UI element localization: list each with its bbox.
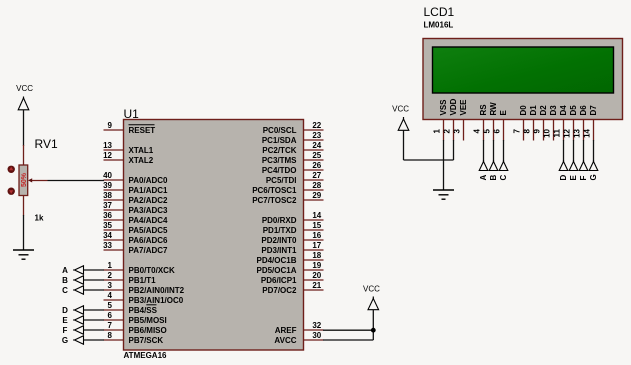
pin 29 (PC7/TOSC2) bbox=[252, 191, 323, 205]
wire terminal D to pin bbox=[84, 309, 105, 311]
pin 5 (PB4/SS) bbox=[104, 301, 158, 315]
ground (LCD) bbox=[433, 190, 454, 199]
svg-text:PA2/ADC2: PA2/ADC2 bbox=[129, 196, 169, 205]
power VCC (AREF) bbox=[363, 285, 380, 311]
wire RV1 to ground bbox=[23, 215, 25, 250]
svg-text:38: 38 bbox=[103, 191, 112, 200]
terminal F bbox=[63, 326, 84, 335]
svg-text:4: 4 bbox=[473, 128, 482, 133]
svg-text:8: 8 bbox=[523, 128, 532, 133]
svg-text:12: 12 bbox=[103, 151, 112, 160]
svg-text:12: 12 bbox=[563, 128, 572, 137]
svg-text:4: 4 bbox=[108, 291, 113, 300]
wire AVCC bbox=[323, 330, 373, 340]
svg-text:34: 34 bbox=[103, 231, 112, 240]
pin 33 (PA7/ADC7) bbox=[103, 241, 168, 255]
svg-text:VDD: VDD bbox=[449, 98, 458, 115]
terminal E (LCD) bbox=[569, 160, 578, 181]
wire VSS pin1 to ground bbox=[443, 140, 445, 190]
wire LCD pin to terminal D bbox=[563, 140, 565, 163]
svg-text:33: 33 bbox=[103, 241, 112, 250]
wire LCD pin to terminal A bbox=[483, 140, 485, 163]
svg-text:PA0/ADC0: PA0/ADC0 bbox=[129, 176, 169, 185]
wire terminal A to pin bbox=[84, 269, 105, 271]
svg-text:35: 35 bbox=[103, 221, 112, 230]
svg-text:30: 30 bbox=[312, 331, 321, 340]
svg-text:7: 7 bbox=[513, 128, 522, 133]
wire VCC to AREF bbox=[372, 310, 374, 331]
pin 1 (PB0/T0/XCK) bbox=[104, 261, 175, 275]
pin 12 (XTAL2) bbox=[103, 151, 154, 165]
terminal C (LCD) bbox=[499, 160, 508, 181]
svg-text:25: 25 bbox=[312, 151, 321, 160]
pin 8 (PB7/SCK) bbox=[104, 331, 164, 345]
svg-text:PD3/INT1: PD3/INT1 bbox=[261, 246, 297, 255]
svg-text:D0: D0 bbox=[519, 105, 528, 116]
pin 7 (PB6/MISO) bbox=[104, 321, 167, 335]
svg-text:14: 14 bbox=[312, 211, 321, 220]
svg-text:PC2/TCK: PC2/TCK bbox=[262, 146, 296, 155]
LCD pin 4 (RS) bbox=[473, 104, 488, 141]
svg-text:32: 32 bbox=[312, 321, 321, 330]
svg-text:3: 3 bbox=[108, 281, 113, 290]
pin 20 (PD6/ICP1) bbox=[261, 271, 324, 285]
svg-text:18: 18 bbox=[312, 251, 321, 260]
wire terminal F to pin bbox=[84, 329, 105, 331]
LCD pin 9 (D2) bbox=[533, 105, 548, 141]
LCD pin 1 (VSS) bbox=[433, 99, 448, 141]
svg-text:PD0/RXD: PD0/RXD bbox=[262, 216, 297, 225]
pin 39 (PA1/ADC1) bbox=[103, 181, 168, 195]
svg-text:PD1/TXD: PD1/TXD bbox=[263, 226, 297, 235]
LCD screen bbox=[433, 47, 614, 93]
svg-text:3: 3 bbox=[453, 128, 462, 133]
pin 17 (PD3/INT1) bbox=[261, 241, 323, 255]
svg-text:U1: U1 bbox=[124, 107, 140, 121]
svg-text:E: E bbox=[569, 175, 578, 181]
svg-text:39: 39 bbox=[103, 181, 112, 190]
svg-text:23: 23 bbox=[312, 131, 321, 140]
pin 32 (AREF) bbox=[275, 321, 324, 335]
svg-text:C: C bbox=[499, 175, 508, 181]
terminal D bbox=[62, 306, 83, 315]
svg-text:RW: RW bbox=[489, 102, 498, 116]
svg-text:D5: D5 bbox=[569, 105, 578, 116]
svg-text:XTAL1: XTAL1 bbox=[129, 146, 154, 155]
pin 4 (PB3/AIN1/OC0) bbox=[104, 291, 184, 305]
svg-text:29: 29 bbox=[312, 191, 321, 200]
svg-text:17: 17 bbox=[312, 241, 321, 250]
pin 37 (PA3/ADC3) bbox=[103, 201, 168, 215]
svg-text:G: G bbox=[589, 174, 598, 180]
terminal G bbox=[62, 336, 84, 345]
svg-text:10: 10 bbox=[543, 128, 552, 137]
terminal D (LCD) bbox=[559, 160, 568, 181]
svg-text:PB4/SS: PB4/SS bbox=[129, 306, 158, 315]
svg-text:RV1: RV1 bbox=[35, 137, 58, 151]
svg-text:PA5/ADC5: PA5/ADC5 bbox=[129, 226, 169, 235]
pin 9 (RESET) bbox=[104, 121, 156, 135]
svg-text:PA7/ADC7: PA7/ADC7 bbox=[129, 246, 169, 255]
svg-text:27: 27 bbox=[312, 171, 321, 180]
svg-text:20: 20 bbox=[312, 271, 321, 280]
LCD pin 5 (RW) bbox=[483, 102, 498, 141]
svg-text:PB3/AIN1/OC0: PB3/AIN1/OC0 bbox=[129, 296, 184, 305]
svg-text:PC3/TMS: PC3/TMS bbox=[262, 156, 297, 165]
svg-text:D4: D4 bbox=[559, 105, 568, 116]
terminal G (LCD) bbox=[589, 160, 598, 181]
LCD pin 10 (D3) bbox=[543, 105, 558, 141]
terminal B (LCD) bbox=[489, 160, 498, 181]
terminal A bbox=[62, 266, 83, 275]
svg-text:7: 7 bbox=[108, 321, 113, 330]
pin 24 (PC2/TCK) bbox=[262, 141, 323, 155]
svg-text:VSS: VSS bbox=[439, 99, 448, 116]
wire VCC to RV1 bbox=[23, 110, 25, 146]
pin 27 (PC5/TDI) bbox=[266, 171, 324, 185]
wire terminal B to pin bbox=[84, 279, 105, 281]
svg-text:14: 14 bbox=[583, 128, 592, 137]
junction dot bbox=[371, 328, 376, 333]
pin 18 (PD4/OC1B) bbox=[256, 251, 323, 265]
svg-text:15: 15 bbox=[312, 221, 321, 230]
svg-text:VCC: VCC bbox=[16, 84, 33, 93]
pin 13 (XTAL1) bbox=[103, 141, 154, 155]
pin 22 (PC0/SCL) bbox=[263, 121, 324, 135]
svg-text:6: 6 bbox=[493, 128, 502, 133]
pin 19 (PD5/OC1A) bbox=[256, 261, 323, 275]
svg-text:PC1/SDA: PC1/SDA bbox=[262, 136, 297, 145]
svg-text:19: 19 bbox=[312, 261, 321, 270]
pin 34 (PA6/ADC6) bbox=[103, 231, 168, 245]
terminal A (LCD) bbox=[479, 160, 488, 181]
svg-text:13: 13 bbox=[103, 141, 112, 150]
svg-text:D: D bbox=[62, 306, 68, 315]
svg-text:F: F bbox=[63, 326, 68, 335]
svg-text:A: A bbox=[62, 266, 68, 275]
RV1 wiper bbox=[28, 178, 48, 182]
pin 15 (PD1/TXD) bbox=[263, 221, 324, 235]
wire terminal E to pin bbox=[84, 319, 105, 321]
LCD pin 12 (D5) bbox=[563, 105, 578, 141]
svg-text:PD5/OC1A: PD5/OC1A bbox=[256, 266, 296, 275]
pin 38 (PA2/ADC2) bbox=[103, 191, 168, 205]
svg-text:6: 6 bbox=[108, 311, 113, 320]
svg-text:2: 2 bbox=[108, 271, 113, 280]
svg-text:PC4/TDO: PC4/TDO bbox=[262, 166, 297, 175]
svg-text:D: D bbox=[559, 175, 568, 181]
pin 14 (PD0/RXD) bbox=[262, 211, 324, 225]
svg-text:1: 1 bbox=[433, 128, 442, 133]
wire LCD pin to terminal E bbox=[573, 140, 575, 163]
svg-text:PB6/MISO: PB6/MISO bbox=[129, 326, 167, 335]
LCD pin 2 (VDD) bbox=[443, 98, 458, 140]
svg-text:PD7/OC2: PD7/OC2 bbox=[262, 286, 297, 295]
wire LCD pin to terminal F bbox=[583, 140, 585, 163]
svg-text:D7: D7 bbox=[589, 105, 598, 116]
wire terminal C to pin bbox=[84, 289, 105, 291]
terminal F (LCD) bbox=[579, 160, 588, 181]
wire LCD pin to terminal B bbox=[493, 140, 495, 163]
pin 26 (PC4/TDO) bbox=[262, 161, 324, 175]
svg-text:RESET: RESET bbox=[129, 126, 156, 135]
wire LCD pin to terminal C bbox=[503, 140, 505, 163]
svg-text:D3: D3 bbox=[549, 105, 558, 116]
svg-text:D6: D6 bbox=[579, 105, 588, 116]
svg-text:PB1/T1: PB1/T1 bbox=[129, 276, 157, 285]
pin 6 (PB5/MOSI) bbox=[104, 311, 167, 325]
svg-text:C: C bbox=[62, 286, 68, 295]
svg-text:PC0/SCL: PC0/SCL bbox=[263, 126, 297, 135]
svg-text:PA6/ADC6: PA6/ADC6 bbox=[129, 236, 169, 245]
svg-text:PC5/TDI: PC5/TDI bbox=[266, 176, 297, 185]
wire VCC to VDD pin2 bbox=[404, 140, 454, 160]
wire LCD pin to terminal G bbox=[593, 140, 595, 163]
svg-text:PC7/TOSC2: PC7/TOSC2 bbox=[252, 196, 297, 205]
svg-text:PB7/SCK: PB7/SCK bbox=[129, 336, 164, 345]
svg-text:40: 40 bbox=[103, 171, 112, 180]
svg-text:B: B bbox=[489, 175, 498, 181]
svg-text:AREF: AREF bbox=[275, 326, 297, 335]
pin 25 (PC3/TMS) bbox=[262, 151, 324, 165]
svg-text:11: 11 bbox=[553, 128, 562, 137]
terminal C bbox=[62, 286, 83, 295]
LCD pin 13 (D6) bbox=[573, 105, 588, 141]
svg-text:B: B bbox=[62, 276, 68, 285]
svg-text:RS: RS bbox=[479, 104, 488, 116]
potentiometer RV1 bbox=[19, 145, 28, 216]
svg-text:G: G bbox=[62, 336, 68, 345]
pin 40 (PA0/ADC0) bbox=[103, 171, 168, 185]
terminal E bbox=[62, 316, 83, 325]
svg-text:21: 21 bbox=[312, 281, 321, 290]
svg-text:D2: D2 bbox=[539, 105, 548, 116]
svg-text:E: E bbox=[62, 316, 68, 325]
ground (RV1) bbox=[13, 250, 34, 259]
wire terminal G to pin bbox=[84, 339, 105, 341]
pin 2 (PB1/T1) bbox=[104, 271, 157, 285]
svg-text:PB0/T0/XCK: PB0/T0/XCK bbox=[129, 266, 175, 275]
svg-text:PD4/OC1B: PD4/OC1B bbox=[256, 256, 296, 265]
svg-text:D1: D1 bbox=[529, 105, 538, 116]
pin 30 (AVCC) bbox=[274, 331, 323, 345]
svg-text:9: 9 bbox=[533, 128, 542, 133]
RV1 adjust button up bbox=[8, 166, 15, 173]
svg-text:16: 16 bbox=[312, 231, 321, 240]
svg-text:8: 8 bbox=[108, 331, 113, 340]
svg-text:1: 1 bbox=[108, 261, 113, 270]
pin 28 (PC6/TOSC1) bbox=[252, 181, 323, 195]
LCD display LCD1 (LM016L) body bbox=[423, 39, 623, 120]
power VCC (RV1) bbox=[16, 84, 33, 110]
svg-text:LCD1: LCD1 bbox=[424, 5, 455, 19]
wire AREF bbox=[323, 329, 373, 331]
svg-text:1k: 1k bbox=[35, 213, 44, 222]
svg-text:5: 5 bbox=[108, 301, 113, 310]
svg-text:PA3/ADC3: PA3/ADC3 bbox=[129, 206, 169, 215]
pin 36 (PA4/ADC4) bbox=[103, 211, 168, 225]
pin 23 (PC1/SDA) bbox=[262, 131, 324, 145]
terminal B bbox=[62, 276, 83, 285]
LCD pin 6 (E) bbox=[493, 110, 508, 141]
svg-text:50%: 50% bbox=[21, 172, 28, 187]
svg-text:PC6/TOSC1: PC6/TOSC1 bbox=[252, 186, 297, 195]
svg-text:ATMEGA16: ATMEGA16 bbox=[124, 351, 168, 360]
svg-text:PB5/MOSI: PB5/MOSI bbox=[129, 316, 167, 325]
pin 16 (PD2/INT0) bbox=[261, 231, 323, 245]
svg-text:E: E bbox=[499, 110, 508, 116]
IC U1 (ATMEGA16) body bbox=[124, 120, 304, 351]
svg-text:22: 22 bbox=[312, 121, 321, 130]
svg-text:A: A bbox=[479, 175, 488, 181]
power VCC (LCD) bbox=[392, 105, 409, 131]
LCD pin 8 (D1) bbox=[523, 105, 538, 141]
svg-text:F: F bbox=[579, 176, 588, 181]
svg-text:VCC: VCC bbox=[392, 105, 409, 114]
svg-text:24: 24 bbox=[312, 141, 321, 150]
svg-text:2: 2 bbox=[443, 128, 452, 133]
wire VCC down (LCD) bbox=[403, 130, 405, 160]
svg-text:26: 26 bbox=[312, 161, 321, 170]
svg-text:28: 28 bbox=[312, 181, 321, 190]
svg-text:VCC: VCC bbox=[363, 285, 380, 294]
svg-text:PA1/ADC1: PA1/ADC1 bbox=[129, 186, 169, 195]
svg-text:PB2/AIN0/INT2: PB2/AIN0/INT2 bbox=[129, 286, 185, 295]
svg-text:5: 5 bbox=[483, 128, 492, 133]
pin 35 (PA5/ADC5) bbox=[103, 221, 168, 235]
svg-text:9: 9 bbox=[108, 121, 113, 130]
svg-text:VEE: VEE bbox=[459, 99, 468, 116]
svg-text:13: 13 bbox=[573, 128, 582, 137]
svg-text:PD2/INT0: PD2/INT0 bbox=[261, 236, 297, 245]
svg-text:PA4/ADC4: PA4/ADC4 bbox=[129, 216, 169, 225]
svg-text:36: 36 bbox=[103, 211, 112, 220]
LCD pin 7 (D0) bbox=[513, 105, 528, 141]
svg-text:LM016L: LM016L bbox=[424, 21, 454, 30]
LCD pin 3 (VEE) bbox=[453, 99, 468, 141]
svg-text:AVCC: AVCC bbox=[274, 336, 296, 345]
svg-text:PD6/ICP1: PD6/ICP1 bbox=[261, 276, 297, 285]
RV1 adjust button down bbox=[8, 188, 15, 195]
pin 21 (PD7/OC2) bbox=[262, 281, 323, 295]
LCD pin 11 (D4) bbox=[553, 105, 568, 141]
wire RV1 wiper to pin 40 bbox=[48, 180, 105, 182]
svg-text:37: 37 bbox=[103, 201, 112, 210]
LCD pin 14 (D7) bbox=[583, 105, 598, 141]
svg-text:XTAL2: XTAL2 bbox=[129, 156, 154, 165]
pin 3 (PB2/AIN0/INT2) bbox=[104, 281, 185, 295]
